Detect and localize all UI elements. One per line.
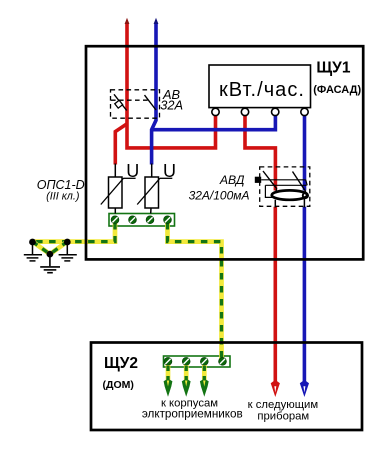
ground junction dot right	[64, 239, 71, 246]
wire blue AVD output down	[303, 207, 307, 384]
breaker pole 1 diamond	[115, 100, 123, 108]
ground symbol left	[24, 242, 42, 261]
terminal block ShchU1 screws	[111, 216, 171, 224]
AVD secondary loop	[265, 185, 272, 197]
AVD pole 1 blade	[263, 171, 277, 196]
red arrowhead to next devices	[271, 381, 280, 397]
AVD pole 2 blade	[293, 172, 307, 195]
breaker linkage dashed line	[111, 99, 150, 101]
varistor U2 lead top	[151, 164, 153, 178]
ground junction dot left	[29, 239, 36, 246]
wire PE stub arrow 3	[200, 361, 209, 396]
ground junction dot middle	[47, 251, 54, 258]
breaker pole 2 blade	[145, 95, 157, 110]
kWh meter box	[209, 65, 311, 108]
wire red meter T2 to AVD	[245, 115, 275, 191]
ground symbol right	[59, 242, 77, 261]
svg-text:ЩУ2: ЩУ2	[104, 355, 138, 372]
AVD trip bar end tick	[306, 180, 308, 186]
breaker pole 1 blade	[114, 94, 127, 110]
AVD toroid right tip loop	[303, 193, 308, 198]
box ShchU2	[91, 343, 362, 431]
svg-text:элктроприемников: элктроприемников	[142, 407, 243, 420]
varistor U2 body	[145, 177, 159, 208]
wire PE terminal4 down to ShchU2	[168, 220, 222, 361]
box ShchU1	[86, 46, 363, 259]
svg-text:кВт./час.: кВт./час.	[219, 79, 305, 101]
varistor U1 diagonal	[101, 178, 124, 204]
svg-text:(ФАСАД): (ФАСАД)	[313, 84, 361, 96]
svg-text:32А: 32А	[160, 97, 183, 112]
breaker AV 32A dashed box	[111, 90, 160, 118]
varistor U1 body	[109, 177, 123, 208]
terminal block ShchU1 body	[109, 214, 175, 227]
svg-text:приборам: приборам	[257, 411, 309, 423]
kWh terminal 1	[212, 108, 219, 115]
varistor U2 diagonal	[137, 178, 160, 204]
wire PE yellow-green: terminal1 to ground	[33, 220, 116, 242]
svg-text:(III кл.): (III кл.)	[46, 190, 79, 202]
AVD secondary bar	[265, 184, 306, 186]
blue arrowhead to next devices	[300, 381, 309, 397]
terminal block ShchU2 screws	[164, 358, 226, 366]
kWh terminal 4	[301, 108, 308, 115]
AVD lead red side	[274, 200, 276, 208]
varistor U2 lead bottom	[150, 208, 152, 214]
svg-text:АВД: АВД	[219, 173, 245, 187]
kWh terminal 2	[241, 108, 248, 115]
varistor U1 lead bottom	[114, 208, 116, 214]
varistor U1 top bar	[123, 177, 135, 179]
wire blue meter T4 into AVD	[303, 115, 307, 191]
svg-text:U: U	[126, 161, 139, 181]
kWh terminal 3	[272, 108, 279, 115]
AVD toroid ellipse	[272, 190, 308, 199]
wire red AVD output down	[273, 207, 277, 384]
wire red branch to varistor U1	[115, 124, 127, 165]
ground symbol middle	[40, 254, 60, 273]
RCD AVD dashed box	[260, 167, 310, 206]
AVD lead blue side	[303, 198, 305, 207]
svg-text:(ДОМ): (ДОМ)	[103, 379, 134, 391]
wire blue horizontal to meter T3	[152, 115, 276, 130]
svg-text:к следующим: к следующим	[248, 399, 318, 411]
svg-text:U: U	[163, 161, 176, 181]
svg-text:32А/100мА: 32А/100мА	[189, 188, 250, 202]
wire PE stub arrow 2	[182, 361, 191, 396]
AVD magnet square	[255, 177, 261, 183]
terminal block ShchU2 body	[164, 356, 231, 367]
wire N neutral blue incoming jog to varistor U2	[152, 23, 156, 165]
svg-text:ЩУ1: ЩУ1	[316, 59, 350, 76]
wire PE diagonal right dot to middle dot	[50, 242, 67, 255]
wire PE stub arrow 1	[164, 361, 173, 396]
AVD trip bar	[261, 179, 306, 181]
wire L phase red incoming	[127, 23, 216, 148]
wire PE diagonal left dot to middle dot	[33, 242, 50, 255]
wire red tip arrow	[125, 18, 130, 24]
varistor U2 top bar	[160, 177, 172, 179]
wire blue tip arrow	[154, 18, 159, 24]
varistor U1 lead top	[114, 164, 116, 178]
